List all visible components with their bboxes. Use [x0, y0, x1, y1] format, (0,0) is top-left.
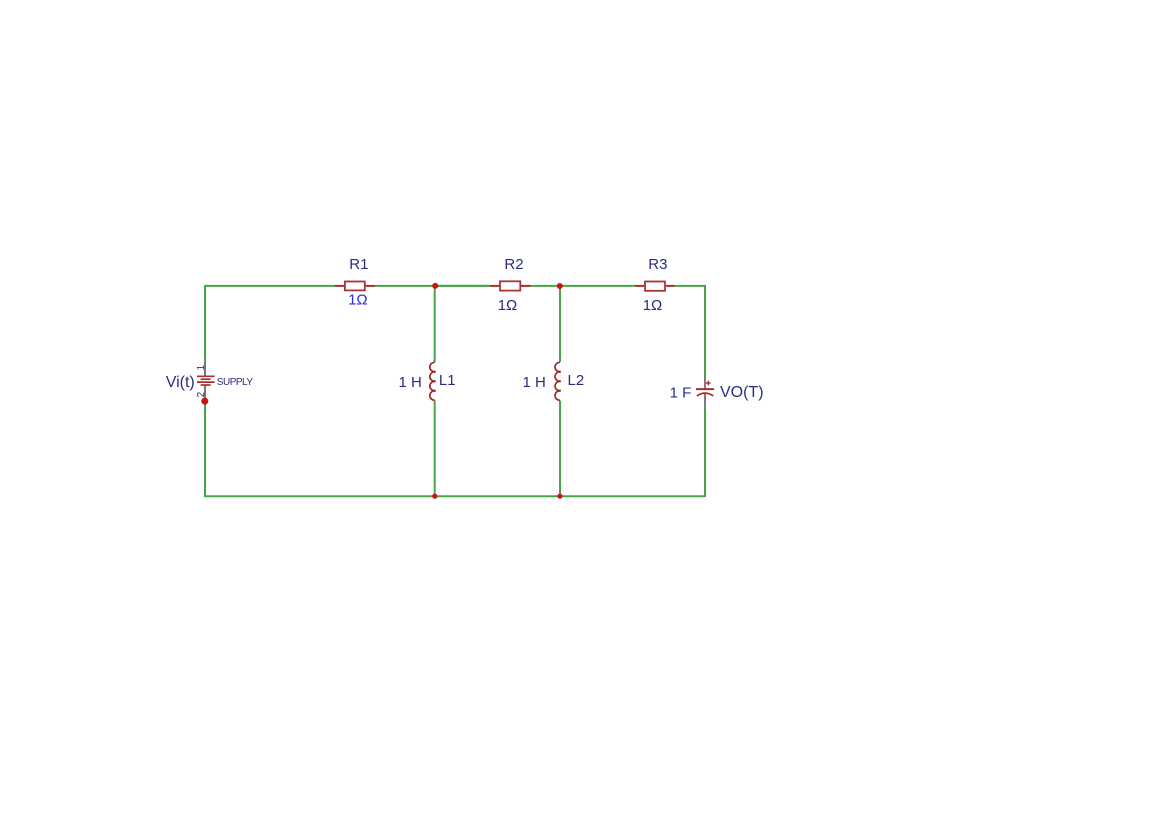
- svg-text:SUPPLY: SUPPLY: [217, 377, 254, 388]
- voltage source V1 pin 1 wire: [204, 362, 206, 377]
- svg-text:1: 1: [196, 364, 207, 370]
- value 1&#937; of R2: [498, 297, 518, 314]
- value 1&#937; of R3: [643, 297, 663, 314]
- svg-text:R3: R3: [648, 256, 667, 273]
- wire L1 branch lower: [434, 401, 436, 497]
- junction node A top: [432, 283, 438, 289]
- value 1 H of L2: [522, 374, 545, 391]
- wire L1 branch upper: [434, 286, 436, 362]
- pin number 2: [196, 391, 207, 397]
- inductor L2: [555, 362, 561, 400]
- wire right branch lower (C1 to bottom): [704, 406, 706, 497]
- junction node A bottom: [432, 494, 437, 499]
- pin number 1: [196, 364, 207, 370]
- wire L2 branch lower: [559, 401, 561, 497]
- wire left branch upper (source to top): [204, 285, 206, 362]
- voltage source V1 pin 2 wire: [204, 385, 206, 399]
- svg-text:R1: R1: [349, 256, 368, 273]
- svg-text:Vi(t): Vi(t): [166, 374, 195, 391]
- svg-text:L1: L1: [439, 372, 456, 389]
- resistor R1: [335, 282, 375, 291]
- svg-text:2: 2: [196, 391, 207, 397]
- wire node B to R3: [560, 285, 635, 287]
- label Vi(t): [166, 374, 195, 391]
- wire L2 branch upper: [559, 286, 561, 362]
- wire left branch lower (source to bottom): [204, 398, 206, 498]
- resistor R3: [635, 282, 675, 291]
- wire R1 to node A: [375, 285, 490, 287]
- svg-text:1Ω: 1Ω: [643, 297, 663, 314]
- value 1&#937; of R1: [348, 292, 368, 309]
- wire node A to R2: [435, 285, 490, 287]
- wire top-left to R1: [205, 285, 335, 287]
- inductor L1: [430, 362, 436, 400]
- wire right branch upper (top to C1): [704, 285, 706, 377]
- resistor R2: [490, 281, 531, 290]
- svg-text:1 H: 1 H: [522, 374, 545, 391]
- svg-text:L2: L2: [568, 372, 585, 389]
- svg-text:1 F: 1 F: [670, 384, 692, 401]
- capacitor C1 pin wires (gray): [704, 377, 706, 406]
- svg-text:1Ω: 1Ω: [348, 292, 368, 309]
- value 1 H of L1: [398, 374, 421, 391]
- junction dot below source: [201, 398, 208, 405]
- svg-text:1Ω: 1Ω: [498, 297, 518, 314]
- capacitor C1: [696, 381, 714, 397]
- label R1: [349, 256, 368, 273]
- svg-text:1 H: 1 H: [398, 374, 421, 391]
- label L2: [568, 372, 585, 389]
- junction node B top: [557, 283, 563, 289]
- label SUPPLY: [217, 377, 254, 388]
- junction node B bottom: [557, 494, 562, 499]
- voltage source V1 battery plates: [197, 376, 215, 385]
- wire R2 to node B: [531, 285, 561, 287]
- label VO(T): [720, 384, 764, 401]
- label R3: [648, 256, 667, 273]
- wire bottom rail: [205, 495, 705, 497]
- label R2: [504, 256, 523, 273]
- svg-text:R2: R2: [504, 256, 523, 273]
- svg-text:VO(T): VO(T): [720, 384, 764, 401]
- value 1 F of C1: [670, 384, 692, 401]
- wire R3 to top-right corner: [675, 285, 706, 287]
- label L1: [439, 372, 456, 389]
